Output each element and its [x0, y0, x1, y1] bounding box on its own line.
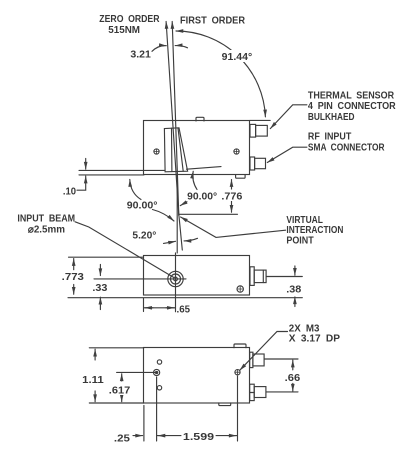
90 left arc up arrow	[130, 180, 141, 200]
hole target M3 left	[154, 369, 160, 375]
dim 1.11 line	[94, 349, 96, 360]
dim 1.599 ext lines	[157, 376, 238, 441]
svg-text:INPUT BEAM: INPUT BEAM	[17, 214, 75, 225]
centerline below box	[176, 175, 178, 254]
label .776	[220, 190, 244, 202]
svg-text:90.00°: 90.00°	[187, 192, 217, 203]
svg-text:3.21: 3.21	[130, 49, 151, 60]
bottom foot view1	[236, 175, 246, 178]
circle center ext line (.33 ref)	[94, 278, 186, 280]
thermal connector view1	[250, 124, 256, 137]
interaction ref line	[179, 213, 238, 215]
body box view3	[144, 348, 250, 404]
dim .65 left ext	[143, 299, 145, 312]
svg-text:90.00°: 90.00°	[127, 200, 158, 211]
5.2 deg beam	[179, 215, 182, 250]
5.20 arrow right	[184, 238, 198, 241]
5.20 arrow left	[164, 241, 176, 243]
svg-text:4 PIN CONNECTOR: 4 PIN CONNECTOR	[308, 101, 396, 112]
body box view2	[144, 256, 250, 296]
2X M3 leader	[240, 332, 288, 371]
hole upper small	[157, 360, 161, 364]
box bottom extension line	[79, 174, 144, 176]
svg-text:SMA CONNECTOR: SMA CONNECTOR	[308, 142, 385, 153]
crystal face line	[187, 167, 222, 170]
svg-text:RF INPUT: RF INPUT	[308, 132, 351, 143]
screw hole left view1	[154, 149, 159, 154]
dim .776 lower arrow	[231, 201, 233, 212]
svg-text:FIRST ORDER: FIRST ORDER	[180, 15, 246, 26]
VIP leader	[181, 217, 286, 237]
3.21 arrow left	[152, 46, 166, 52]
zero order beam	[166, 22, 179, 216]
centerline view2	[175, 253, 177, 312]
dim .773 top ext	[69, 256, 144, 258]
input beam line	[79, 169, 165, 171]
svg-text:.617: .617	[109, 385, 131, 396]
thermal connector view3	[250, 352, 253, 367]
dim .65 line	[145, 307, 153, 309]
SMA connector view2	[250, 267, 254, 286]
label 1.11	[81, 373, 105, 385]
dim 1.11 ext lines	[89, 348, 144, 403]
hole lower small	[157, 386, 161, 390]
input target outer circle	[168, 271, 183, 286]
first order beam	[172, 22, 179, 216]
label .38	[285, 282, 302, 294]
dim .66 arrows	[292, 360, 294, 370]
svg-text:.773: .773	[62, 272, 85, 283]
svg-text:515NM: 515NM	[108, 25, 140, 36]
top tab view3	[234, 344, 246, 348]
SMA connector view3	[250, 384, 255, 400]
top tab view1	[196, 117, 204, 121]
svg-text:5.20°: 5.20°	[132, 231, 156, 242]
arc 91.44	[176, 31, 265, 117]
dim .10 arrows	[85, 159, 87, 170]
bottom tab view3	[219, 403, 231, 406]
svg-text:1.599: 1.599	[183, 432, 215, 443]
dim .38 top ref	[267, 276, 303, 278]
label .773	[61, 270, 85, 282]
svg-text:.10: .10	[63, 187, 77, 198]
svg-text:.33: .33	[92, 283, 107, 294]
label .617	[108, 383, 131, 395]
dim .66 ref lines	[265, 359, 299, 392]
svg-text:ZERO ORDER: ZERO ORDER	[99, 14, 160, 25]
svg-text:.66: .66	[285, 373, 301, 384]
crystal inner line	[171, 128, 173, 171]
dim .33 arrows	[99, 264, 101, 275]
RF leader	[267, 147, 307, 162]
body box view1	[144, 121, 250, 175]
dim .25 ext line	[143, 406, 145, 442]
svg-text:POINT: POINT	[286, 235, 313, 246]
90 right arrow to face	[193, 171, 197, 189]
svg-text:.38: .38	[286, 284, 301, 295]
90 left arc right arrow	[153, 210, 175, 222]
screw hole right view1	[234, 149, 239, 154]
svg-text:.776: .776	[221, 192, 242, 203]
RF connector view1	[250, 157, 255, 170]
crystal inner slant	[178, 128, 183, 171]
hole M3 right	[235, 370, 240, 375]
svg-text:BULKHAED: BULKHAED	[308, 112, 355, 123]
input beam leader	[75, 222, 174, 278]
dim .25 leader	[133, 435, 143, 437]
box top extension line	[250, 119, 270, 121]
svg-text:.65: .65	[177, 305, 191, 316]
svg-text:91.44°: 91.44°	[222, 52, 253, 63]
screw view2	[237, 286, 243, 292]
dim .617 ext line	[117, 371, 158, 373]
dim 1.599 line	[157, 435, 238, 437]
svg-text:X 3.17 DP: X 3.17 DP	[289, 334, 341, 345]
label .66	[284, 372, 302, 383]
label 1.599	[181, 430, 215, 442]
dim .38 arrows	[294, 266, 296, 275]
input target middle circle	[171, 274, 181, 284]
svg-text:THERMAL SENSOR: THERMAL SENSOR	[308, 90, 395, 101]
svg-text:.25: .25	[114, 433, 130, 444]
input target inner circle	[174, 277, 178, 281]
base extension line view2	[68, 297, 302, 299]
thermal leader	[270, 105, 307, 129]
svg-text:1.11: 1.11	[82, 375, 104, 386]
dim .617 line	[121, 374, 123, 381]
crystal wedge	[164, 128, 187, 172]
dim .773 arrows	[73, 259, 75, 270]
dim .776 upper arrow	[231, 180, 233, 190]
svg-text:⌀2.5mm: ⌀2.5mm	[28, 224, 65, 235]
90 right arrow to beam	[180, 202, 187, 206]
label 91.44	[220, 50, 255, 62]
3.21 arrow right	[175, 46, 187, 48]
